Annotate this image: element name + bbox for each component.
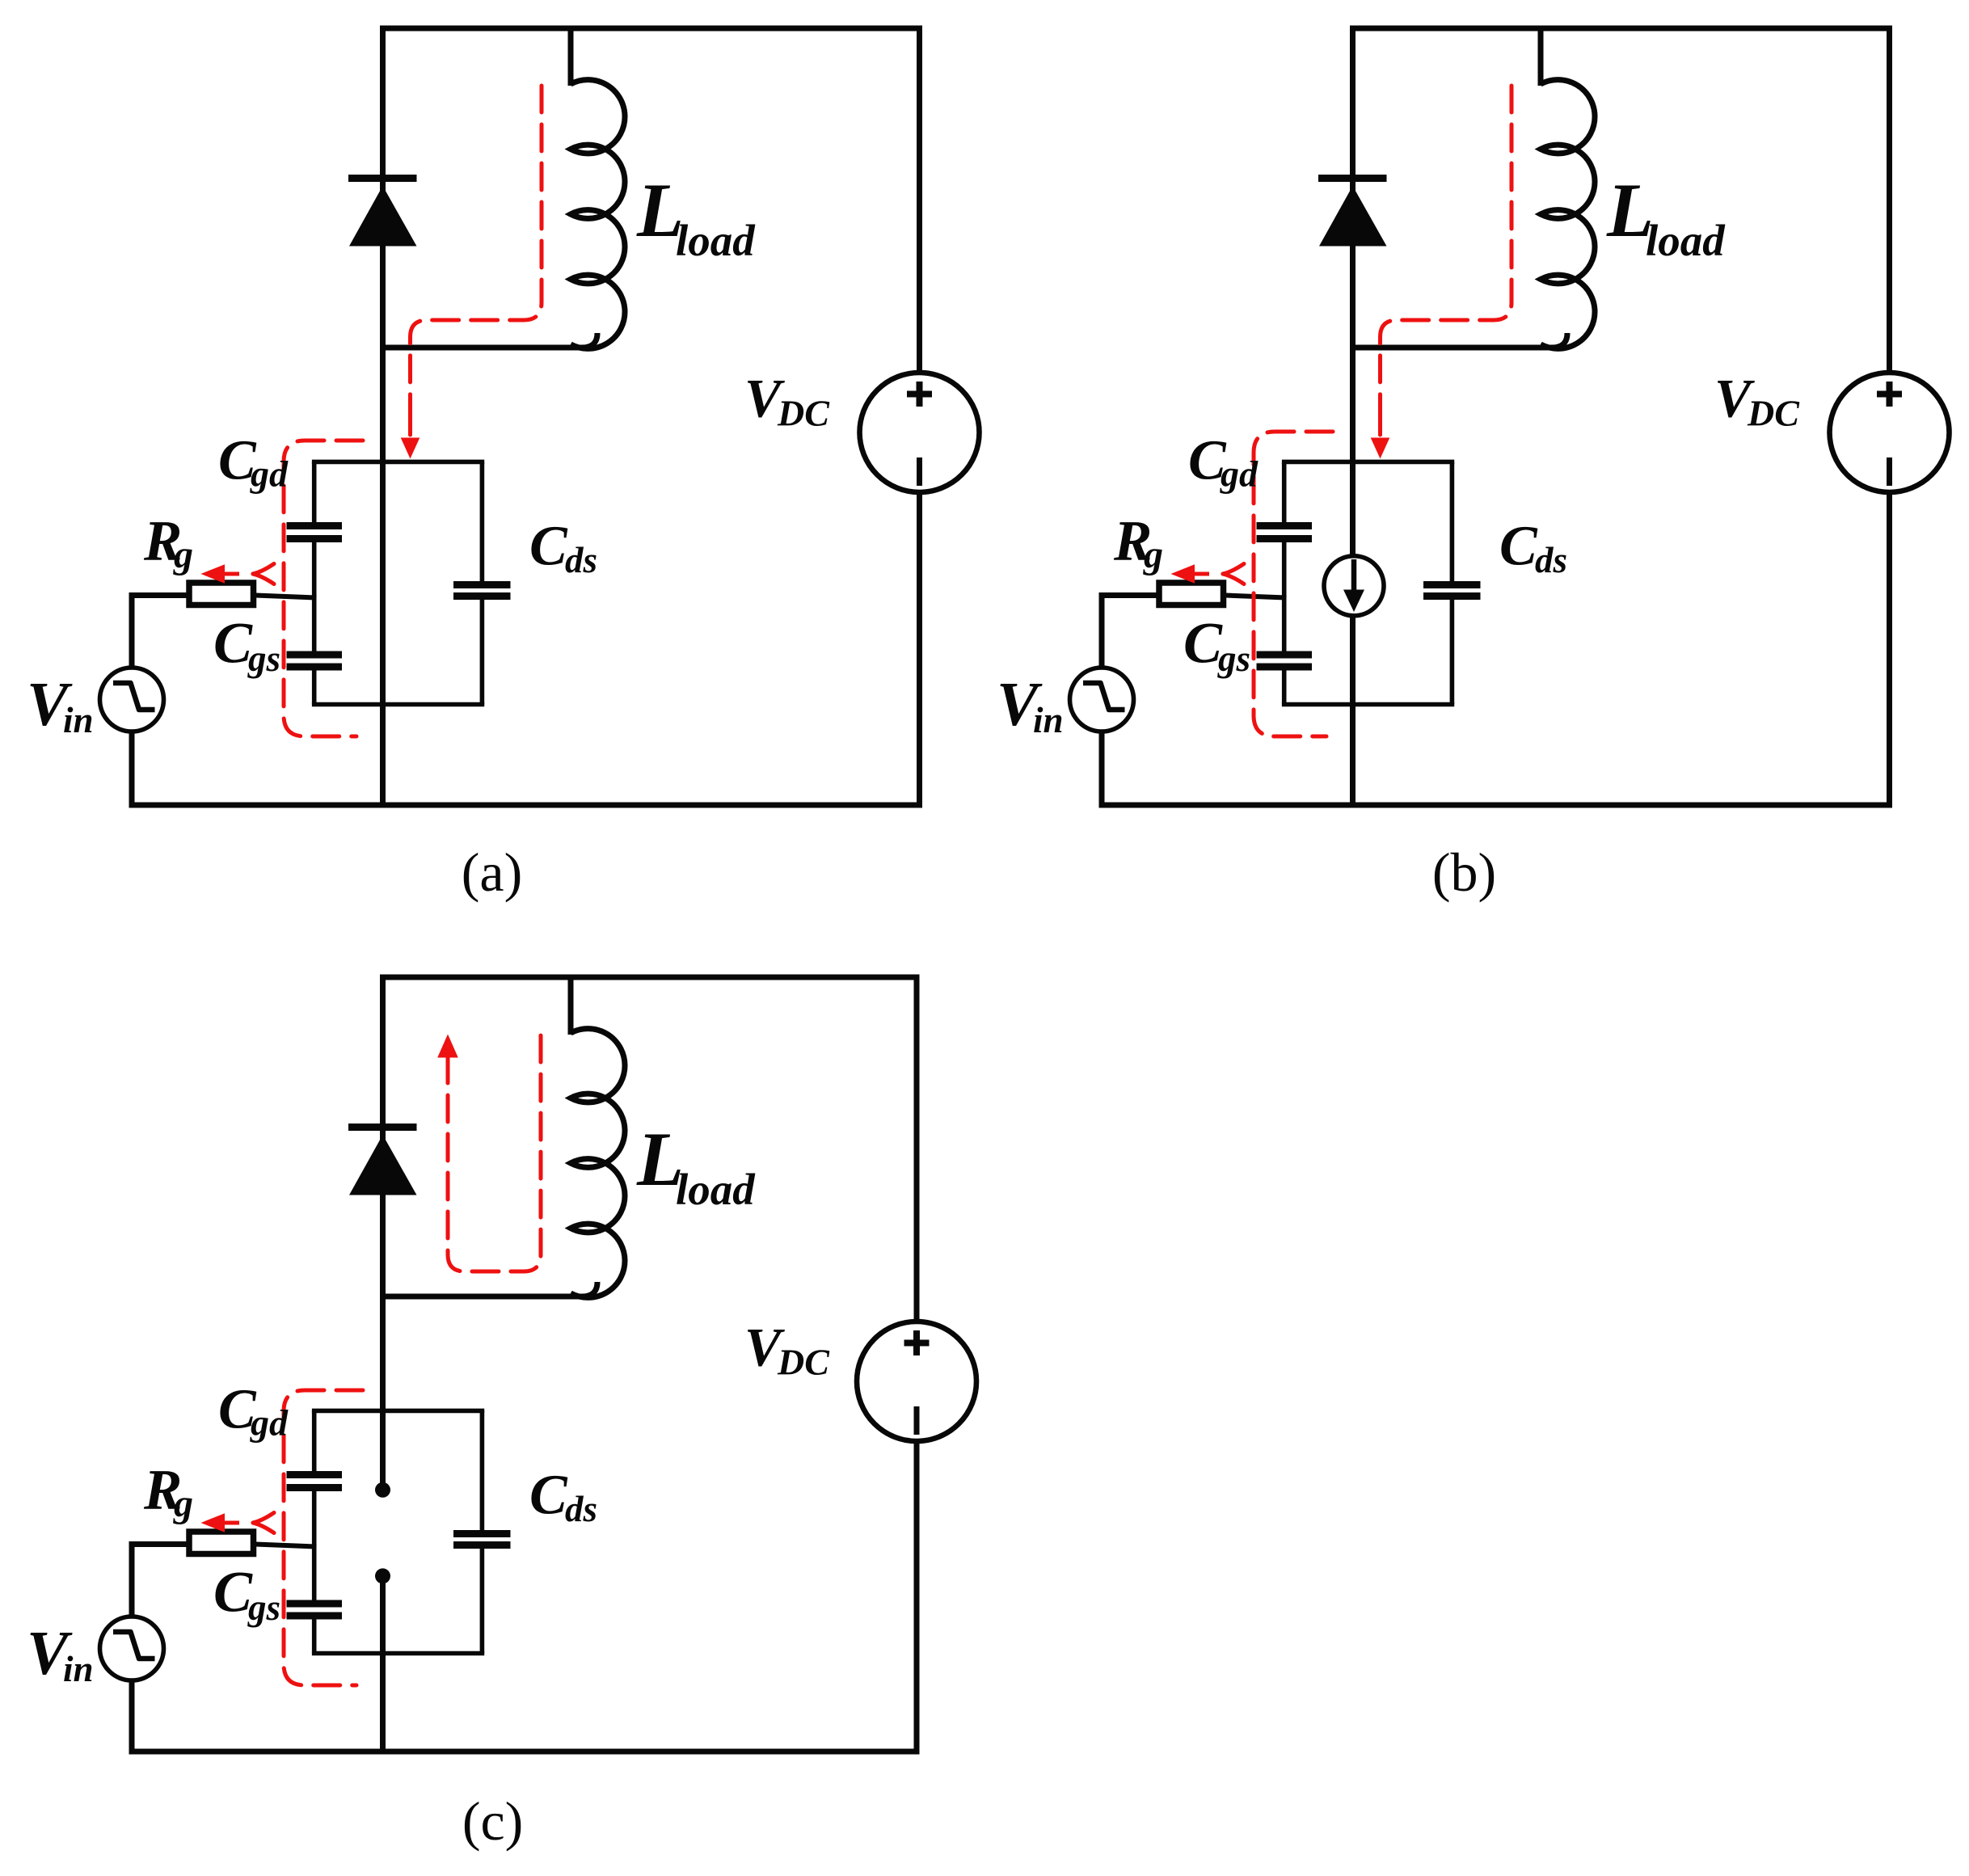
- source V_in circle with step waveform (a): [100, 668, 164, 731]
- wire: inductor top stub (a): [568, 28, 574, 86]
- source V_DC circle (c): [857, 1322, 976, 1441]
- red dashed drain-current path from inductor to switch (a): [401, 86, 542, 459]
- label V_in (a): [27, 669, 94, 740]
- resistor R_g body (c): [189, 1532, 254, 1554]
- inductor L_load coil (b): [1541, 80, 1595, 349]
- label V_DC (b): [1714, 368, 1800, 434]
- capacitor C_gs plates (c): [287, 1604, 343, 1616]
- svg-text:gd: gd: [250, 1402, 289, 1444]
- red dashed drain-current path from inductor to switch (b): [1371, 86, 1512, 459]
- svg-text:in: in: [63, 1649, 94, 1689]
- svg-text:g: g: [1143, 533, 1163, 576]
- red arrow into R_g with branch fork (a): [201, 564, 275, 584]
- svg-text:load: load: [676, 216, 756, 265]
- label V_in (b): [997, 669, 1064, 740]
- label R_g (c): [143, 1459, 193, 1526]
- label V_DC (a): [744, 368, 830, 434]
- svg-text:in: in: [1033, 700, 1064, 740]
- capacitor C_gd plates (b): [1257, 526, 1313, 539]
- wire: top rail of circuit (a): [380, 26, 922, 32]
- svg-text:gs: gs: [247, 639, 280, 679]
- wire: top rail of circuit (c): [380, 975, 920, 980]
- red arrow into R_g with branch fork (c): [201, 1513, 275, 1533]
- label C_gs (a): [213, 611, 280, 680]
- svg-text:(c): (c): [462, 1790, 523, 1852]
- label C_ds (b): [1499, 516, 1567, 581]
- red dashed gate charge loop (c): [284, 1390, 363, 1685]
- label C_gd (b): [1188, 430, 1259, 495]
- V_DC plus sign (b): [1877, 382, 1902, 407]
- svg-text:C: C: [213, 611, 253, 676]
- resistor R_g body (b): [1159, 583, 1224, 605]
- wire: left diode/drain branch of circuit (a): [380, 28, 386, 805]
- wire: bottom rail of circuit (b): [1099, 803, 1893, 808]
- svg-text:g: g: [173, 533, 193, 576]
- source V_in circle with step waveform (c): [100, 1617, 164, 1680]
- capacitor C_gd plates (c): [287, 1475, 343, 1488]
- resistor R_g body (a): [189, 583, 254, 605]
- V_DC minus terminal stub (a): [917, 457, 922, 486]
- svg-text:C: C: [529, 516, 568, 578]
- wire: top rail of circuit (b): [1350, 26, 1892, 32]
- wire: V_in to bottom rail (c): [129, 1680, 135, 1752]
- svg-text:ds: ds: [1535, 540, 1567, 580]
- inductor L_load coil (a): [571, 80, 625, 349]
- V_DC plus sign (a): [907, 382, 932, 407]
- svg-text:(a): (a): [462, 841, 522, 903]
- label C_ds (a): [529, 516, 597, 581]
- wire: gate connection from R_g to gate node (a): [255, 596, 317, 598]
- wire: bottom rail of circuit (c): [129, 1749, 920, 1755]
- label V_DC (c): [744, 1317, 830, 1383]
- diode D (a) cathode bar and anode triangle: [348, 179, 417, 247]
- label C_ds (c): [529, 1465, 597, 1530]
- label R_g (a): [143, 510, 193, 577]
- MOSFET model box outline (b): [1282, 462, 1454, 704]
- wire: right branch (VDC branch) of circuit (a): [917, 28, 922, 805]
- label C_gs (b): [1183, 611, 1250, 680]
- svg-text:gd: gd: [1220, 453, 1259, 495]
- svg-text:gs: gs: [1217, 639, 1250, 679]
- label L_load (a): [636, 167, 756, 265]
- svg-text:g: g: [173, 1482, 193, 1525]
- svg-text:gs: gs: [247, 1587, 280, 1628]
- svg-text:DC: DC: [777, 1342, 830, 1383]
- red dashed gate charge loop (a): [284, 441, 363, 736]
- source V_in circle with step waveform (b): [1070, 668, 1134, 731]
- svg-text:load: load: [676, 1165, 756, 1214]
- red dashed gate charge loop (b): [1254, 432, 1333, 736]
- label R_g (b): [1113, 510, 1163, 577]
- wire: left diode/drain branch of circuit (c): [380, 977, 386, 1490]
- svg-text:in: in: [63, 700, 94, 740]
- svg-text:C: C: [529, 1465, 568, 1527]
- svg-text:DC: DC: [1747, 393, 1800, 434]
- V_DC plus sign (c): [904, 1330, 930, 1355]
- svg-text:C: C: [213, 1560, 253, 1625]
- open switch contact dots on drain-source path (c): [375, 1482, 390, 1584]
- wire: inductor top stub (b): [1538, 28, 1544, 86]
- dependent current source inside MOSFET box (b): [1324, 556, 1384, 616]
- svg-text:ds: ds: [565, 1489, 597, 1529]
- svg-text:(b): (b): [1432, 841, 1496, 903]
- capacitor C_gd plates (a): [287, 526, 343, 539]
- label L_load (b): [1606, 167, 1726, 265]
- svg-text:DC: DC: [777, 393, 830, 434]
- capacitor C_ds plates (c): [453, 1534, 511, 1545]
- svg-text:C: C: [1499, 516, 1538, 578]
- inductor L_load coil (c): [571, 1029, 625, 1298]
- wire: inductor bottom connection to drain node (c): [380, 1282, 597, 1296]
- wire: inductor bottom connection to drain node (a): [380, 333, 597, 348]
- MOSFET model box outline (a): [312, 462, 484, 704]
- wire: V_in to bottom rail (b): [1099, 731, 1105, 805]
- wire: gate connection from R_g to gate node (b): [1225, 596, 1287, 598]
- wire: right branch (VDC branch) of circuit (b): [1887, 28, 1892, 805]
- wire: inductor top stub (c): [568, 977, 574, 1035]
- wire: V_in to R_g (c): [129, 1541, 188, 1617]
- capacitor C_gs plates (a): [287, 655, 343, 667]
- label C_gd (a): [218, 430, 289, 495]
- wire: gate connection from R_g to gate node (c): [255, 1545, 317, 1547]
- label C_gd (c): [218, 1379, 289, 1444]
- svg-text:gd: gd: [250, 453, 289, 495]
- capacitor C_ds plates (b): [1423, 585, 1481, 597]
- label V_in (c): [27, 1618, 94, 1689]
- svg-text:load: load: [1646, 216, 1726, 265]
- wire: V_in to bottom rail (a): [129, 731, 135, 805]
- MOSFET model box outline (c): [312, 1410, 484, 1653]
- label C_gs (c): [213, 1560, 280, 1629]
- source V_DC circle (a): [860, 373, 980, 492]
- diode D (b) cathode bar and anode triangle: [1318, 179, 1387, 247]
- red dashed freewheeling loop through diode and inductor (c): [437, 1035, 541, 1272]
- wire: bottom rail of circuit (a): [129, 803, 923, 808]
- wire: V_in to R_g (b): [1099, 592, 1157, 668]
- wire: inductor bottom connection to drain node (b): [1350, 333, 1567, 348]
- svg-text:ds: ds: [565, 540, 597, 580]
- wire: left diode/drain branch of circuit (b): [1350, 28, 1356, 805]
- capacitor C_gs plates (b): [1257, 655, 1313, 667]
- wire: V_in to R_g (a): [129, 592, 188, 668]
- V_DC minus terminal stub (b): [1887, 457, 1892, 486]
- source V_DC circle (b): [1830, 373, 1950, 492]
- wire: right branch (VDC branch) of circuit (c): [914, 977, 920, 1752]
- V_DC minus terminal stub (c): [914, 1406, 920, 1435]
- red arrow into R_g with branch fork (b): [1171, 564, 1245, 584]
- diode D (c) cathode bar and anode triangle: [348, 1128, 417, 1195]
- label L_load (c): [636, 1116, 756, 1214]
- svg-text:C: C: [1183, 611, 1223, 676]
- capacitor C_ds plates (a): [453, 585, 511, 597]
